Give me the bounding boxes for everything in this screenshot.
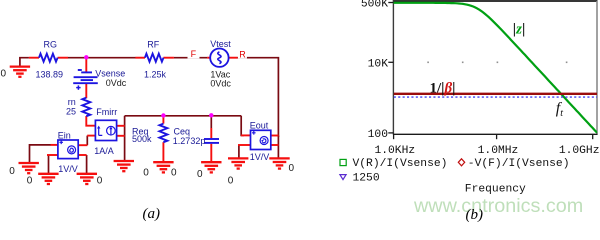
svg-text:1V/V: 1V/V xyxy=(250,152,270,162)
pin Eout right top xyxy=(271,135,279,137)
wire Ein right top pin up to Fmirr xyxy=(86,136,88,146)
svg-text:0: 0 xyxy=(228,175,234,186)
curve |z| (green) xyxy=(394,3,597,132)
svg-text:1V/V: 1V/V xyxy=(58,164,78,174)
x tick 1.0KHz xyxy=(393,134,395,139)
node A junction dot xyxy=(84,55,88,59)
svg-text:(a): (a) xyxy=(143,206,161,222)
svg-text:1.0MHz: 1.0MHz xyxy=(478,145,519,157)
legend marker square green xyxy=(340,159,346,165)
svg-text:1A/A: 1A/A xyxy=(94,146,114,156)
svg-text:F: F xyxy=(191,49,197,59)
pin RF right xyxy=(163,57,174,59)
svg-text:Frequency: Frequency xyxy=(465,183,526,195)
capacitor Ceq xyxy=(204,139,219,143)
svg-text:R: R xyxy=(239,49,246,59)
pin rn bottom to Fmirr xyxy=(86,116,95,126)
wire RF to Vtest (node F) xyxy=(174,57,208,59)
svg-text:1.0KHz: 1.0KHz xyxy=(374,145,415,157)
source Vsense (battery) xyxy=(73,70,98,90)
svg-text:0: 0 xyxy=(289,163,295,174)
svg-text:500k: 500k xyxy=(132,134,152,144)
wire Fmirr output down to ground xyxy=(124,116,126,161)
svg-text:1.2732p: 1.2732p xyxy=(173,136,206,146)
svg-text:0Vdc: 0Vdc xyxy=(106,78,127,88)
svg-text:0: 0 xyxy=(97,176,103,187)
pin Ein left top xyxy=(51,144,59,146)
controlled source Ein (E element box) xyxy=(58,140,78,159)
svg-text:Vsense: Vsense xyxy=(95,68,125,78)
junction dot rail/Ceq xyxy=(209,113,213,117)
node R label xyxy=(238,49,247,59)
svg-text:0: 0 xyxy=(27,176,33,187)
y tick 100 xyxy=(388,132,393,134)
wire rail Fmirr to Eout xyxy=(125,115,242,117)
pin Ein left bottom xyxy=(47,154,58,156)
svg-text:100: 100 xyxy=(368,129,389,141)
wire Vsense chain (red) xyxy=(85,58,87,72)
y tick 500K xyxy=(388,2,393,4)
svg-text:1.25k: 1.25k xyxy=(144,70,167,80)
svg-text:0: 0 xyxy=(171,168,177,179)
x tick 1.0GHz xyxy=(592,134,594,139)
y tick 10K xyxy=(388,61,393,63)
svg-text:(b): (b) xyxy=(466,207,484,222)
svg-text:V(R)/I(Vsense): V(R)/I(Vsense) xyxy=(353,158,448,170)
node F label xyxy=(188,49,200,59)
ground G2 (Ein bottom) xyxy=(38,174,58,184)
line 1/|beta| (dark red) xyxy=(394,93,597,95)
svg-text:1/|β|: 1/|β| xyxy=(430,81,456,97)
svg-text:Eout: Eout xyxy=(250,121,269,131)
pin Ceq top xyxy=(210,128,212,138)
svg-text:10K: 10K xyxy=(368,58,389,70)
svg-text:RF: RF xyxy=(147,39,159,49)
pin Fmirr right bottom xyxy=(117,135,125,137)
plot border right xyxy=(596,1,598,135)
resistor RG xyxy=(39,54,58,62)
controlled source Eout (E element box) xyxy=(251,130,271,149)
pin Vtest left xyxy=(207,57,210,59)
grid dots 10K row xyxy=(427,62,567,64)
wire Eout left bottom pin to ground xyxy=(238,145,240,159)
ground G0 (input) xyxy=(10,67,30,77)
svg-text:25: 25 xyxy=(66,106,76,116)
pin Eout left bottom xyxy=(238,144,251,146)
svg-text:0: 0 xyxy=(9,166,15,177)
svg-text:Fmirr: Fmirr xyxy=(96,107,117,117)
svg-text:www.cntronics.com: www.cntronics.com xyxy=(413,195,583,217)
svg-text:0: 0 xyxy=(143,168,149,179)
ground G5 (Req) xyxy=(153,162,173,172)
junction dot rail/Req xyxy=(161,113,165,117)
plot border top xyxy=(393,0,598,2)
ground G7 (Eout left) xyxy=(228,158,248,168)
svg-text:Ein: Ein xyxy=(58,131,71,141)
svg-text:1.0GHz: 1.0GHz xyxy=(559,145,600,157)
pin RF left xyxy=(135,57,145,59)
wire Ein left top pin to ground G1 xyxy=(30,145,51,163)
svg-text:|z|: |z| xyxy=(513,21,525,37)
ground G4 (Fmirr) xyxy=(114,161,134,171)
pin Fmirr right top xyxy=(117,125,125,127)
resistor Req xyxy=(159,124,167,143)
plot border bottom (x axis) xyxy=(393,133,598,135)
controlled source Fmirr (F element box) xyxy=(95,120,116,140)
pin Fmirr left bottom xyxy=(87,135,95,137)
pin RG right xyxy=(58,57,68,59)
ground G3 (Ein right) xyxy=(77,174,97,184)
resistor RF xyxy=(145,54,164,62)
source Vtest (AC source) xyxy=(210,49,228,67)
plot border left (y axis) xyxy=(392,0,394,135)
svg-text:0: 0 xyxy=(197,169,203,180)
wire Ceq top xyxy=(210,116,212,128)
pin Ceq bottom to ground xyxy=(210,144,212,163)
svg-text:-V(F)/I(Vsense): -V(F)/I(Vsense) xyxy=(468,158,570,170)
pin Req top xyxy=(162,117,164,124)
ground G6 (Ceq) xyxy=(201,162,221,172)
pin Req bottom to ground xyxy=(162,142,164,162)
wire rail corner down to Eout left top pin xyxy=(241,116,244,136)
legend marker triangle purple xyxy=(340,175,346,180)
dotted line 1250 (blue) xyxy=(394,96,597,98)
wire Ein left bottom pin down to ground G2 xyxy=(48,155,50,174)
pin Ein right top xyxy=(78,144,87,146)
resistor rn xyxy=(82,98,90,117)
wire ground to RG xyxy=(20,58,29,67)
wire RG to RF (through node A) xyxy=(68,57,136,59)
pin RG left xyxy=(29,57,39,59)
pin Vsense bottom to rn xyxy=(85,84,87,98)
svg-text:1250: 1250 xyxy=(353,173,380,185)
ground G8 (Eout right) xyxy=(269,158,289,168)
ground G1 (Ein left) xyxy=(19,163,39,173)
x tick 1.0MHz xyxy=(496,134,498,139)
wire Ein right bottom pin down to ground G3 xyxy=(86,155,88,174)
svg-text:138.89: 138.89 xyxy=(36,70,64,80)
svg-text:Vtest: Vtest xyxy=(210,39,231,49)
pin Eout left top xyxy=(241,134,251,136)
svg-text:ft: ft xyxy=(556,100,563,119)
pin Eout right bottom xyxy=(271,144,279,146)
svg-text:RG: RG xyxy=(44,39,58,49)
wire Vtest to right corner (node R) xyxy=(238,58,279,137)
legend marker diamond red xyxy=(458,159,464,166)
pin Ein right bottom xyxy=(78,154,87,156)
svg-text:0: 0 xyxy=(1,68,7,79)
svg-text:0Vdc: 0Vdc xyxy=(210,78,231,88)
wire Eout right pins to ground xyxy=(277,136,279,159)
svg-text:500K: 500K xyxy=(361,0,388,10)
pin Vtest right xyxy=(228,57,237,59)
